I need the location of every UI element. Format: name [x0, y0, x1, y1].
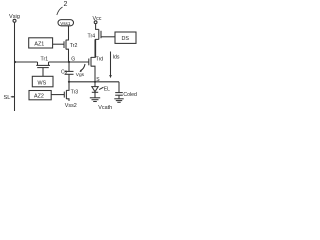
- EL pointer arrow: [99, 87, 103, 89]
- ground at Coled: [114, 98, 123, 100]
- wire: Vcc to Tr4 drain: [96, 24, 99, 30]
- svg-text:AZ2: AZ2: [34, 94, 44, 100]
- node: junction of SL with sampling wire: [14, 61, 16, 63]
- box AZ2: [29, 91, 51, 100]
- wire: Tr1 to node G: [49, 61, 89, 63]
- transistor Tr3: [63, 92, 65, 98]
- svg-text:2: 2: [64, 1, 68, 8]
- svg-text:AZ1: AZ1: [34, 41, 44, 47]
- box WS: [32, 76, 53, 87]
- Vcc terminal: [94, 21, 97, 24]
- Ids current arrow: [110, 52, 112, 77]
- node G junction: [68, 61, 70, 63]
- transistor Tr4: [98, 29, 100, 39]
- box DS: [115, 32, 136, 43]
- SL pointer arrow: [11, 96, 14, 98]
- svg-text:Vcc: Vcc: [93, 16, 102, 22]
- node S junction at EL: [94, 81, 96, 83]
- transistor Tr2: [63, 41, 65, 48]
- wire: Tr1 gate to WS box: [42, 68, 44, 77]
- svg-text:Coled: Coled: [123, 92, 137, 98]
- svg-text:Ids: Ids: [113, 54, 120, 60]
- svg-text:Vcath: Vcath: [98, 105, 112, 111]
- svg-text:Tr2: Tr2: [70, 43, 78, 49]
- svg-text:Tr4: Tr4: [88, 34, 96, 40]
- wire: sampling row (node G row): [15, 61, 38, 63]
- Vss1 terminal oval: [58, 20, 74, 26]
- box AZ1: [29, 38, 53, 48]
- wire: Tr4 gate to DS box: [101, 36, 115, 38]
- wire: node S row: [69, 81, 119, 83]
- svg-text:SL: SL: [4, 95, 11, 101]
- svg-text:WS: WS: [38, 80, 47, 86]
- wire: signal line SL vertical: [14, 22, 16, 111]
- svg-text:Cs: Cs: [61, 70, 68, 76]
- capacitor Cs: [68, 62, 70, 71]
- svg-text:EL: EL: [104, 87, 110, 93]
- svg-text:Tr1: Tr1: [41, 56, 49, 62]
- wire: AZ1 output to Tr2 gate: [53, 43, 64, 45]
- Vsig terminal: [13, 19, 16, 22]
- svg-text:Tr3: Tr3: [71, 90, 79, 96]
- Vgs annotation arrow: [80, 64, 85, 71]
- wire: Vss1 to Tr2 drain: [66, 26, 69, 40]
- ground at EL cathode: [90, 97, 100, 99]
- diode EL: [94, 82, 96, 87]
- svg-text:Vgs: Vgs: [76, 72, 85, 78]
- capacitor Coled: [118, 82, 120, 93]
- svg-text:Vss1: Vss1: [60, 21, 71, 26]
- svg-text:DS: DS: [122, 36, 130, 42]
- node S junction left: [68, 81, 70, 83]
- svg-text:Vss2: Vss2: [65, 103, 77, 109]
- svg-text:G: G: [71, 57, 75, 63]
- leader line from numeral 2: [57, 7, 63, 15]
- svg-text:Trd: Trd: [96, 56, 104, 62]
- wire: AZ2 output to Tr3 gate: [51, 94, 64, 96]
- transistor Trd: [88, 59, 90, 66]
